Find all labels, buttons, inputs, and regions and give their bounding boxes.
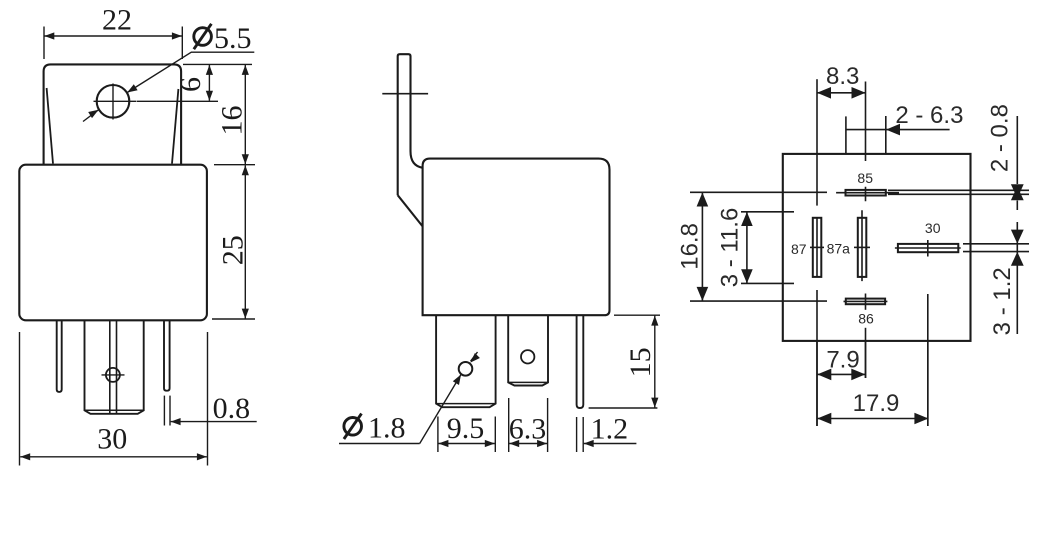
dim 30 line [20, 456, 207, 458]
dim 25 line [244, 165, 246, 318]
relay body side [423, 159, 610, 316]
dim 9.5 extension left [437, 417, 439, 453]
dim 2-0.8 line [1016, 116, 1018, 210]
dim 30 extension left [19, 332, 21, 466]
svg-text:9.5: 9.5 [447, 412, 485, 445]
svg-text:15: 15 [624, 347, 657, 377]
svg-text:30: 30 [97, 423, 127, 456]
dim 6.3 extension left [508, 398, 510, 452]
base outline square [783, 154, 971, 341]
arrow dim22 right [172, 32, 182, 39]
arrow dim17.9 right [914, 413, 928, 425]
arrow dim3-11.6 up [741, 212, 753, 226]
dim 17.9 line [817, 418, 928, 420]
pin 87 blade [813, 218, 822, 277]
dim 16.8 extension upper [690, 191, 827, 193]
arrow dim0.8 [171, 418, 181, 425]
body-top extension line [214, 164, 255, 166]
middle blade hole [521, 350, 534, 363]
pin85 thickness extension lower [888, 193, 1029, 195]
centerline pin86 upper [865, 294, 867, 310]
O5.5 leader [127, 52, 254, 92]
dim 16.8 line [701, 193, 703, 301]
pin30 thickness extension upper [963, 243, 1029, 245]
centerline pin86 lower [865, 328, 867, 378]
svg-text:0.8: 0.8 [213, 392, 251, 425]
centerline pin87 upper [816, 79, 818, 205]
arrow dim17.9 left [817, 413, 831, 425]
svg-text:30: 30 [925, 220, 941, 236]
svg-text:7.9: 7.9 [826, 346, 859, 373]
svg-text:87: 87 [791, 241, 807, 257]
tab left inner edge [47, 88, 53, 164]
svg-text:17.9: 17.9 [853, 390, 900, 417]
arrow dim6 down [206, 91, 213, 101]
arrow dim3-1.2 upper [1011, 230, 1024, 244]
dim 0.8 extension left [163, 396, 165, 426]
dim 1.2 leader line [584, 443, 637, 445]
pin 86 blade [846, 299, 885, 305]
arrow dim15 down [651, 398, 658, 408]
arrow dim16 up [242, 65, 249, 75]
svg-text:3 - 11.6: 3 - 11.6 [717, 208, 744, 288]
middle blade bevel line [508, 381, 548, 383]
arrow O1.8 leader [453, 375, 461, 386]
arrow dim7.9 left [817, 369, 831, 381]
dim 8.3 line [817, 92, 866, 94]
arrow dim2-0.8 lower [1011, 186, 1024, 200]
dim 2-6.3 line [846, 129, 950, 131]
arrow dim9.5 left [438, 440, 448, 447]
dim symbol O5.5 diameter sign [194, 24, 212, 49]
arrow dim6 up [206, 65, 213, 75]
O1.8 counter arrow tail [471, 352, 478, 361]
arrow dim30 right [197, 453, 207, 460]
arrow dim6.3 right [537, 440, 547, 447]
pin85 thickness extension upper [888, 189, 1029, 191]
O5.5 counter arrow tail [83, 110, 99, 122]
pin 87 blade midline [816, 218, 818, 277]
dim 1.2 extension right [582, 417, 584, 452]
side pin wide blade 9.5 [436, 315, 496, 407]
blade hole O1.8 front [106, 368, 120, 382]
dim 2-6.3 extension right [885, 116, 887, 154]
arrow O1.8 counter [470, 353, 480, 363]
dim 0.8 extension right [169, 396, 171, 426]
O1.8 leader underline [339, 443, 420, 445]
dim 3-11.6 extension lower [741, 282, 794, 284]
svg-text:5.5: 5.5 [214, 22, 252, 55]
svg-text:1.8: 1.8 [368, 412, 406, 445]
pin left (thin) [57, 321, 62, 392]
bracket lower diagonal [398, 195, 423, 226]
arrow O5.5 counter [88, 110, 98, 118]
dim 22 extension right [181, 27, 183, 60]
arrow dim7.9 right [851, 369, 865, 381]
side pin middle blade 6.3 [508, 315, 548, 385]
dim 9.5 extension right [494, 417, 496, 453]
dim 0.8 leader line [171, 421, 257, 423]
body-bottom extension right [614, 314, 660, 316]
svg-text:16: 16 [216, 106, 249, 136]
arrow dim16.8 up [697, 193, 709, 207]
dim 16 line [244, 65, 246, 164]
wide blade bevel line [436, 403, 496, 405]
pin 85 blade [846, 190, 886, 196]
svg-text:85: 85 [857, 170, 873, 186]
centerline pin30 lower [927, 294, 929, 426]
svg-text:2 - 6.3: 2 - 6.3 [895, 102, 963, 129]
dim 1.2 extension left [576, 417, 578, 452]
pin 30 blade [898, 244, 958, 252]
arrow dim22 left [44, 32, 54, 39]
arrow dim1.2 [584, 440, 594, 447]
hole cross horizontal [94, 100, 137, 102]
svg-text:87a: 87a [827, 241, 851, 257]
dim 17.9 extension right [927, 341, 929, 426]
pin 87a blade midline [861, 218, 863, 277]
centerline pin85 [865, 82, 867, 202]
arrow dim9.5 right [485, 440, 495, 447]
svg-text:2 - 0.8: 2 - 0.8 [986, 104, 1013, 172]
body-bottom extension line [212, 318, 255, 320]
dim 22 line [44, 35, 182, 37]
dim 16.8 extension lower [690, 300, 827, 302]
svg-text:6: 6 [174, 77, 207, 92]
centerline pin87a stubs [861, 210, 863, 281]
pin-tip extension line [589, 407, 658, 409]
mounting hole O5.5 [97, 85, 130, 118]
bracket hole centerline cross [382, 93, 428, 95]
svg-text:86: 86 [858, 311, 874, 327]
arrow dim2-6.3 [886, 124, 900, 136]
arrow dim15 up [651, 316, 658, 326]
dim 7.9 extension right [865, 341, 867, 378]
side pin thin 1.2 [577, 315, 584, 408]
arrow dim3-1.2 lower [1011, 252, 1024, 266]
dim 3-11.6 extension upper [741, 211, 794, 213]
dim 30 extension right [207, 332, 209, 466]
pin 86 blade midline [844, 300, 888, 302]
arrow dim25 down [242, 309, 249, 319]
arrow dim8.3 right [852, 87, 866, 99]
pin 30 blade midline [895, 247, 961, 249]
arrow dim16 down [242, 154, 249, 164]
arrow dim2-0.8 upper [1011, 184, 1024, 198]
arrow dim8.3 left [817, 87, 831, 99]
svg-text:8.3: 8.3 [826, 63, 859, 90]
svg-text:22: 22 [102, 4, 132, 37]
pin30 thickness extension lower [963, 251, 1029, 253]
bracket outline [398, 54, 423, 195]
arrow dim6.3 left [509, 440, 519, 447]
tab-top extension line [183, 63, 252, 65]
dim 15 line [654, 316, 656, 408]
arrow dim30 left [20, 453, 30, 460]
hole-center extension line [137, 100, 218, 102]
dim 3-11.6 line [746, 212, 748, 283]
hole cross vertical [112, 84, 114, 120]
svg-text:25: 25 [217, 235, 250, 265]
dim 6.3 line [509, 443, 547, 445]
dim 6.3 extension right [547, 398, 549, 452]
mounting tab outline [44, 64, 182, 164]
blade hole centerline [102, 374, 125, 376]
dim 7.9 line [817, 373, 865, 375]
blade bevel line [85, 409, 144, 411]
svg-text:6.3: 6.3 [509, 412, 547, 445]
pin right (thin) [164, 321, 170, 391]
arrow dim3-11.6 down [741, 269, 753, 283]
arrow dim25 up [242, 165, 249, 175]
O1.8 leader diagonal [420, 375, 461, 444]
svg-text:3 - 1.2: 3 - 1.2 [989, 267, 1016, 335]
pin 87a centerline cross [854, 246, 870, 248]
dim 3-1.2 line [1016, 222, 1018, 334]
pin 87a blade [858, 218, 867, 277]
svg-text:16.8: 16.8 [677, 223, 704, 270]
dim 7.9 extension left [816, 341, 818, 426]
arrow O5.5 leader [127, 84, 137, 92]
svg-text:1.2: 1.2 [591, 412, 629, 445]
dim symbol O1.8 diameter sign [344, 414, 362, 439]
dim 2-6.3 extension left [845, 116, 847, 153]
dim 9.5 line [438, 443, 494, 445]
relay body [19, 165, 207, 321]
dim 6 line [208, 65, 210, 101]
centerline pin87 lower [816, 290, 818, 426]
tab right inner edge [172, 89, 178, 164]
arrow dim16.8 down [697, 287, 709, 301]
dim 22 extension left [43, 27, 45, 60]
inner pin edge right [116, 321, 118, 414]
pin 85 blade midline [836, 192, 899, 194]
centerline pin30 stub [927, 240, 929, 257]
inner pin edge left [109, 321, 111, 414]
blade hole O1.8 side [459, 362, 473, 376]
pin center wide blade [85, 321, 144, 414]
pin 87 centerline cross [810, 246, 824, 248]
